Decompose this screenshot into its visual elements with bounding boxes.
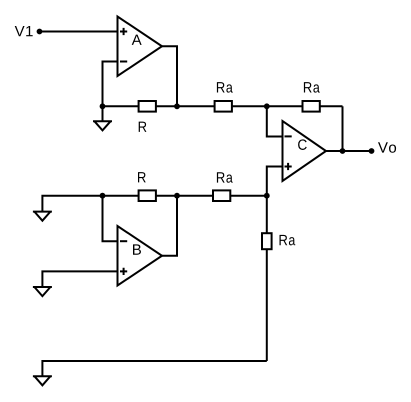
wire top resistor row xyxy=(103,105,343,107)
label Ra vertical xyxy=(280,235,296,245)
node mid bottom (C+ junction) xyxy=(264,193,270,199)
resistor Ra (bottom row) xyxy=(213,190,230,201)
plus mark C xyxy=(285,163,292,170)
node A feedback/ground xyxy=(100,103,106,109)
wire B- feedback xyxy=(103,196,118,242)
op-amp A xyxy=(118,17,163,77)
wire bottom return to ground xyxy=(42,361,266,376)
wire ground stem under A feedback node xyxy=(102,106,104,121)
label V1 xyxy=(15,26,33,36)
ground (under A feedback node) xyxy=(93,121,112,130)
ground (B+ row, left) xyxy=(33,287,52,296)
wire B output up to bottom resistor row xyxy=(162,196,177,256)
wire C+ input down to bottom resistor row xyxy=(267,167,283,196)
label Ra bottom row xyxy=(217,172,233,182)
op-amp C xyxy=(283,121,327,181)
label B xyxy=(133,244,141,254)
op-amp B xyxy=(118,226,163,286)
plus mark B xyxy=(120,268,127,275)
ground (B- row, left) xyxy=(33,212,52,221)
label A xyxy=(132,35,142,45)
plus mark A xyxy=(120,28,127,35)
wire bottom resistor row xyxy=(42,196,266,212)
wire B+ input from ground xyxy=(42,271,117,287)
resistor R (top feedback of A) xyxy=(139,101,156,112)
label R top xyxy=(139,122,147,132)
node A output xyxy=(174,103,180,109)
node C output xyxy=(340,148,346,154)
wire right column down to C output row xyxy=(342,106,344,151)
node V1 xyxy=(37,29,43,35)
wire A- feedback (left edge of A down to node) xyxy=(103,62,118,107)
label R bottom xyxy=(138,172,146,182)
minus mark B xyxy=(120,240,127,242)
resistor R (bottom feedback of B) xyxy=(139,190,156,201)
label Ra top right xyxy=(304,82,320,92)
wire A output down to top resistor row xyxy=(162,46,177,106)
node Vo xyxy=(369,148,375,154)
minus mark A xyxy=(120,61,127,63)
wire node to C- input xyxy=(267,106,283,136)
wire C output to Vo xyxy=(326,150,372,152)
node B feedback/ground xyxy=(100,193,106,199)
wire mid column down through Ra xyxy=(266,196,268,361)
resistor Ra (top row, left) xyxy=(215,101,232,112)
label Ra top left xyxy=(217,82,233,92)
label C xyxy=(298,139,307,150)
wire V1 to A+ input xyxy=(40,31,118,33)
ground (bottom return) xyxy=(33,376,52,385)
minus mark C xyxy=(285,135,292,137)
label Vo xyxy=(378,142,396,152)
node mid top (C- junction) xyxy=(264,103,270,109)
node B output xyxy=(174,193,180,199)
resistor Ra (top row, right / C feedback) xyxy=(303,101,320,112)
resistor Ra (vertical, mid column) xyxy=(262,233,272,249)
